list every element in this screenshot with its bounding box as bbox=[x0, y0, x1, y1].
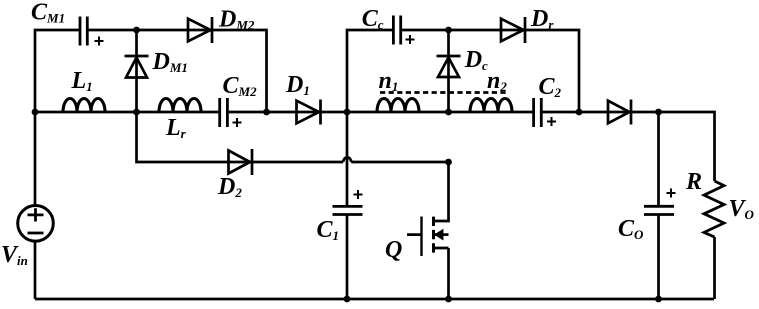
node: junction C_c / D_r / D_c bbox=[445, 27, 452, 34]
node: junction L1 / Lr / D_M1 / D_2 bbox=[133, 109, 140, 116]
node: junction output diode / C_O / R bbox=[655, 109, 662, 116]
capacitor C_O bbox=[644, 206, 674, 214]
svg-text:Lr: Lr bbox=[165, 115, 187, 141]
wire: D_2 branch left segment with corner bbox=[137, 112, 344, 162]
label + of C_M2 bbox=[233, 118, 242, 127]
node: bottom rail C_1 junction bbox=[344, 296, 351, 303]
capacitor C_M1 bbox=[80, 17, 87, 46]
resistor R bbox=[704, 181, 724, 237]
svg-text:C1: C1 bbox=[317, 217, 340, 243]
node: main rail left end bbox=[32, 109, 39, 116]
label + of C_c bbox=[406, 35, 415, 44]
svg-text:R: R bbox=[685, 169, 702, 195]
svg-text:D1: D1 bbox=[285, 72, 310, 98]
svg-text:n2: n2 bbox=[487, 68, 507, 94]
diode D_c bbox=[437, 56, 461, 77]
svg-text:DM1: DM1 bbox=[152, 49, 188, 75]
inductor Lr bbox=[159, 99, 201, 113]
node: junction D_1 / C_c branch / C_1 branch bbox=[344, 109, 351, 116]
svg-text:Q: Q bbox=[385, 237, 402, 263]
svg-text:CO: CO bbox=[618, 216, 644, 242]
capacitor C_1 bbox=[333, 206, 363, 214]
node: junction C_M1 / D_M2 / D_M1 bbox=[133, 27, 140, 34]
wire: main rail segment 2 bbox=[229, 111, 533, 114]
transistor Q (MOSFET) bbox=[407, 162, 449, 299]
label + of C_O bbox=[667, 189, 676, 198]
svg-text:DM2: DM2 bbox=[218, 7, 255, 33]
svg-text:Cc: Cc bbox=[362, 6, 384, 32]
node: junction C_M2 / D_M2 branch / D_1 bbox=[263, 109, 270, 116]
svg-text:Vin: Vin bbox=[1, 242, 28, 268]
capacitor C_c bbox=[393, 16, 400, 45]
wire: right vertical below resistor bbox=[713, 237, 716, 299]
inductor L1 bbox=[63, 99, 105, 113]
wire: left vertical from top-left corner to main rail bbox=[35, 30, 79, 112]
svg-text:C2: C2 bbox=[539, 74, 562, 100]
capacitor C_2 bbox=[534, 98, 542, 127]
capacitor C_M2 bbox=[220, 98, 228, 127]
label - inside V_in bbox=[28, 232, 44, 235]
svg-text:Dc: Dc bbox=[464, 47, 488, 73]
wire: C_1 branch verticals bbox=[346, 112, 349, 299]
output diode bbox=[608, 100, 631, 125]
svg-text:VO: VO bbox=[729, 196, 755, 222]
wire: vertical branch of D_c bbox=[447, 30, 450, 112]
node: junction D_2 / Q drain bbox=[445, 159, 452, 166]
node: bottom rail C_O junction bbox=[655, 296, 662, 303]
source V_in circle bbox=[18, 206, 54, 242]
wire: hop over C_1 branch bbox=[343, 157, 351, 162]
wire: vertical branch of D_M1 bbox=[135, 30, 138, 112]
label + of C_1 bbox=[354, 190, 363, 199]
wire: bottom rail bbox=[35, 298, 714, 301]
svg-text:Dr: Dr bbox=[530, 6, 554, 32]
svg-text:n1: n1 bbox=[379, 68, 399, 94]
wire: D_2 branch right segment bbox=[351, 161, 448, 164]
label + of C_2 bbox=[547, 117, 556, 126]
winding n2 bbox=[470, 99, 512, 113]
node: junction n1 / n2 / D_c / Q drain bbox=[445, 109, 452, 116]
svg-text:CM1: CM1 bbox=[31, 0, 65, 26]
label + inside V_in bbox=[28, 208, 44, 221]
wire: main rail segment 3 to right corner bbox=[542, 112, 715, 181]
diode D_1 bbox=[297, 100, 321, 125]
wire: top-left rail from C_M1 to corner, down to main rail bbox=[89, 30, 267, 112]
node: junction C_2 / D_r branch / output diode bbox=[576, 109, 583, 116]
winding n1 bbox=[377, 99, 419, 113]
diode D_2 bbox=[229, 149, 253, 175]
wire: V_in bottom lead bbox=[34, 241, 37, 299]
svg-text:L1: L1 bbox=[71, 68, 93, 94]
wire: C_O branch verticals bbox=[657, 112, 660, 299]
node: bottom rail Q junction bbox=[445, 296, 452, 303]
svg-text:CM2: CM2 bbox=[223, 73, 258, 99]
label + of C_M1 bbox=[95, 37, 104, 46]
wire: main rail segment 1 bbox=[35, 111, 219, 114]
svg-text:D2: D2 bbox=[217, 174, 242, 200]
diode D_r bbox=[501, 17, 525, 43]
diode D_M1 bbox=[125, 56, 149, 78]
core dashed line bbox=[380, 91, 509, 94]
wire: V_in top lead bbox=[34, 112, 37, 206]
wire: branch up to C_c and top-right rail down to main rail bbox=[347, 30, 579, 112]
diode D_M2 bbox=[188, 17, 212, 43]
